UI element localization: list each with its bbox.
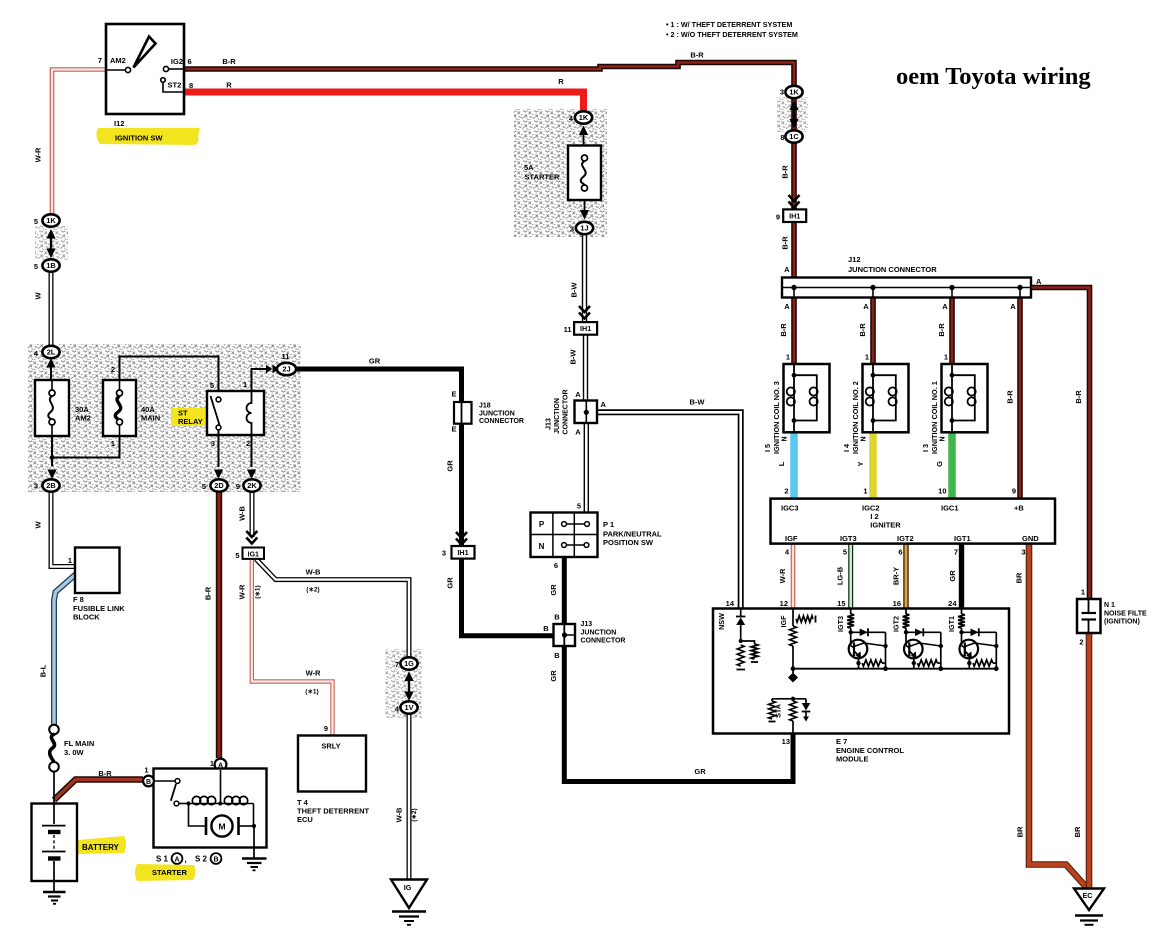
label J13: [581, 621, 593, 628]
label RELAY: [178, 417, 203, 426]
svg-text:FL MAIN: FL MAIN: [64, 739, 94, 748]
pin 1 label: [111, 439, 115, 448]
starter box: [154, 769, 267, 848]
wire B-R junction connector J12 tap 3: [949, 288, 955, 365]
highlight ST RELAY label: [171, 408, 216, 426]
arrows into 2J: [266, 365, 279, 374]
svg-text:ECU: ECU: [297, 815, 313, 824]
ignition switch contact ST2 and wire: [161, 78, 184, 92]
svg-text:N: N: [940, 436, 947, 441]
svg-text:AM2: AM2: [75, 414, 91, 423]
svg-text:1K: 1K: [46, 216, 56, 225]
pin 1 label: [243, 380, 247, 389]
svg-text:N: N: [861, 436, 868, 441]
pin 5 label: [34, 217, 38, 226]
svg-text:IGC1: IGC1: [941, 504, 959, 513]
svg-text:B-R: B-R: [98, 769, 112, 778]
pin 6 label: [554, 561, 558, 570]
label NOISE FILTE: [1104, 611, 1147, 618]
svg-text:1: 1: [865, 353, 869, 362]
svg-text:I 5: I 5: [763, 444, 772, 452]
arrows into IH1: [456, 532, 467, 545]
svg-text:1: 1: [786, 353, 790, 362]
svg-text:24: 24: [948, 599, 957, 608]
arrows into IG1: [246, 531, 257, 544]
label N 1: [1104, 602, 1115, 609]
wire B-W starter fuse 1J to junction IH1: [582, 234, 587, 324]
svg-text:(∗2): (∗2): [306, 587, 319, 594]
svg-text:B-R: B-R: [222, 57, 236, 66]
svg-text:IGT3: IGT3: [840, 534, 857, 543]
label IGC3: [781, 504, 799, 513]
wire G ignition coil no.1 to igniter IGC1: [948, 431, 956, 499]
svg-text:STARTER: STARTER: [525, 173, 560, 182]
svg-text:B-W: B-W: [690, 398, 706, 407]
connector IG1 box: [243, 548, 265, 559]
svg-text:IGNITION COIL NO. 3: IGNITION COIL NO. 3: [772, 381, 781, 454]
shaded area connectors 1G/1V: [385, 649, 422, 718]
svg-text:9: 9: [1012, 487, 1016, 496]
junction 11 IH1: [574, 322, 597, 335]
label IGNITION SW: [115, 134, 163, 143]
svg-text:A: A: [174, 856, 179, 863]
connector 1K starter fuse: [575, 111, 592, 123]
svg-text:B-L: B-L: [39, 664, 48, 677]
svg-text:LG-B: LG-B: [836, 566, 845, 585]
label JUNCTION: [479, 411, 515, 418]
svg-text:B-R: B-R: [690, 51, 704, 60]
ECM IGT3 transistor circuit: [847, 609, 888, 672]
label B-R: [1074, 390, 1083, 404]
svg-text:2L: 2L: [47, 348, 56, 357]
svg-text:B-W: B-W: [569, 349, 578, 365]
svg-text:IGT1: IGT1: [954, 534, 971, 543]
pin 1 label: [1081, 588, 1085, 597]
starter switch: [154, 779, 189, 806]
svg-text:IH1: IH1: [789, 212, 800, 221]
wire GR junction IH1 to junction connector J13: [462, 556, 556, 636]
label A: [1010, 302, 1016, 311]
pin 3 label: [1021, 548, 1025, 557]
wire GR junction connector J13 to ECM pin 13: [564, 644, 793, 782]
label GR: [549, 670, 558, 682]
wire B-W junction connector J13 to park/neutral switch pin 5: [584, 421, 589, 513]
label GR: [694, 767, 706, 776]
connector 1C: [785, 130, 802, 142]
pin 14 label: [726, 599, 735, 608]
svg-text:2K: 2K: [247, 481, 257, 490]
pin 7 label: [98, 56, 102, 65]
svg-text:W-B: W-B: [306, 568, 321, 577]
pin 3 label: [780, 88, 784, 97]
svg-text:6: 6: [898, 548, 902, 557]
label BLOCK: [73, 613, 100, 622]
wire LG-B igniter IGT3 to ECM pin 15: [848, 544, 853, 609]
svg-text:STARTER: STARTER: [152, 868, 187, 877]
title oem Toyota wiring: [896, 63, 1091, 90]
arrow into 2B: [47, 470, 56, 480]
svg-text:8: 8: [780, 133, 784, 142]
svg-text:B: B: [554, 613, 560, 622]
svg-text:B-R: B-R: [781, 236, 790, 250]
label (*2): [411, 808, 418, 821]
pin 1 label: [210, 759, 214, 768]
connector 1K: [42, 214, 59, 226]
label E: [451, 425, 456, 434]
pin 2 label: [111, 365, 115, 374]
pin 5 label: [34, 262, 38, 271]
svg-text:JUNCTION: JUNCTION: [554, 398, 561, 434]
pin 8 label: [780, 133, 784, 142]
ground below battery: [43, 881, 66, 904]
label IGF: [785, 534, 798, 543]
label B: [554, 613, 560, 622]
svg-text:IGF: IGF: [779, 615, 788, 628]
svg-text:GND: GND: [1022, 534, 1039, 543]
label B-R: [204, 586, 213, 600]
svg-text:BLOCK: BLOCK: [73, 613, 100, 622]
wire W connector 2B to fusible link block F8: [51, 490, 75, 567]
label GR: [446, 460, 455, 472]
arrows between 1K and 1B: [46, 229, 55, 258]
svg-text:1C: 1C: [789, 132, 799, 141]
label GND: [1022, 534, 1039, 543]
wire B-R junction connector J12 tap 2: [870, 288, 876, 365]
label JUNCTION CONNECTOR: [848, 265, 937, 274]
ground IG: [391, 880, 427, 925]
connector 1J: [576, 222, 593, 234]
svg-text:L: L: [777, 461, 786, 466]
svg-text:B-R: B-R: [781, 165, 790, 179]
svg-text:1V: 1V: [404, 703, 413, 712]
label W-R: [34, 147, 43, 162]
svg-text:5A: 5A: [524, 163, 534, 172]
svg-text:G: G: [935, 461, 944, 467]
pin 9 label: [324, 724, 328, 733]
ignition switch key symbol: [134, 37, 156, 68]
label B: [554, 651, 560, 660]
pin 8 label: [189, 81, 193, 90]
pin IG2 label: [171, 57, 183, 66]
svg-text:B: B: [213, 856, 218, 863]
svg-text:5: 5: [235, 551, 239, 560]
svg-text:3: 3: [570, 225, 574, 234]
svg-text:W-R: W-R: [778, 568, 787, 583]
arrow into 1K: [579, 126, 588, 147]
label A: [1036, 277, 1042, 286]
label MODULE: [836, 755, 869, 764]
pin 5 label: [202, 482, 206, 491]
wire W-B connector 2K to connector IG1: [250, 490, 255, 537]
arrow into fuse 30A: [46, 358, 55, 381]
wire fuse 40A pin1 to junction: [52, 436, 120, 458]
svg-text:BR: BR: [1016, 826, 1025, 837]
svg-text:Y: Y: [856, 461, 865, 466]
shaded area connectors 1K/1C: [777, 97, 808, 132]
label B: [543, 624, 549, 633]
wire relay pin1 to 2J: [252, 369, 269, 391]
label LG-B: [836, 566, 845, 585]
junction 3 IH1: [452, 546, 475, 559]
junction connector J12: [782, 278, 1031, 298]
ECM E7 box: [713, 609, 1009, 734]
pin 1 label: [144, 766, 148, 775]
wire W-R ignition switch AM2 to connector 1K: [52, 70, 106, 215]
label B-R coil no.3: [779, 323, 788, 337]
svg-text:A: A: [784, 265, 790, 274]
wire B-R connector 2D to starter terminal A: [216, 490, 222, 758]
junction 9 IH1: [783, 209, 806, 222]
label L: [777, 461, 786, 466]
svg-text:A: A: [863, 302, 869, 311]
label B-R: [222, 57, 236, 66]
svg-text:IGT1: IGT1: [947, 616, 956, 632]
svg-text:BR: BR: [1073, 826, 1082, 837]
svg-text:GR: GR: [446, 460, 455, 472]
label IGNITER: [870, 521, 901, 530]
arrows into IH1: [579, 306, 590, 319]
svg-text:I 4: I 4: [842, 443, 851, 452]
ground EC: [1074, 889, 1104, 925]
wire B-R ignition switch IG2 to junction connector J12: [184, 63, 794, 279]
svg-text:IGT2: IGT2: [891, 616, 900, 632]
label W-B: [306, 568, 321, 577]
svg-text:IGF: IGF: [785, 534, 798, 543]
svg-text:JUNCTION: JUNCTION: [581, 630, 617, 637]
svg-text:W-B: W-B: [238, 505, 247, 520]
svg-text:1: 1: [210, 759, 214, 768]
relay switch contacts: [211, 396, 221, 430]
pin 1 label: [863, 487, 867, 496]
svg-text:5: 5: [34, 262, 38, 271]
svg-text:P 1: P 1: [603, 520, 614, 529]
svg-text:E 7: E 7: [836, 737, 847, 746]
label J12: [848, 255, 861, 264]
label IGT2: [891, 616, 900, 632]
svg-text:AM2: AM2: [110, 56, 126, 65]
label IGT1: [947, 616, 956, 632]
arrows between 1G and 1V: [404, 672, 413, 702]
label CONNECTOR vertical: [563, 390, 570, 435]
svg-text:1: 1: [243, 380, 247, 389]
label FL MAIN: [64, 739, 94, 748]
fuse 40A MAIN: [103, 380, 136, 436]
svg-text:J18: J18: [479, 403, 491, 410]
label BATTERY: [82, 843, 120, 852]
label A: [575, 428, 581, 437]
svg-text:B-W: B-W: [570, 282, 579, 298]
svg-text:8: 8: [189, 81, 193, 90]
label R: [558, 77, 564, 86]
svg-text:A: A: [575, 428, 581, 437]
label S1 A S2 B: [156, 853, 221, 864]
wire fuse 30A to 2B junction: [51, 436, 53, 466]
wire relay pin2 to 2K: [251, 435, 253, 467]
label +B: [1014, 504, 1024, 513]
pin 1 label coil no.1: [944, 353, 948, 362]
label STA: [774, 704, 783, 718]
svg-text:IGT2: IGT2: [897, 534, 914, 543]
svg-text:oem Toyota wiring: oem Toyota wiring: [896, 63, 1091, 90]
pin N label coil no.1: [940, 436, 947, 441]
svg-text:IGNITION COIL NO. 2: IGNITION COIL NO. 2: [851, 381, 860, 454]
svg-text:3: 3: [1021, 548, 1025, 557]
wire GR relay 2J to junction connector J18/IH1: [295, 369, 462, 637]
pin 4 label: [569, 114, 574, 123]
svg-text:J13: J13: [581, 621, 593, 628]
label IGF: [779, 615, 788, 628]
connector 2J: [277, 363, 296, 375]
svg-text:7: 7: [395, 660, 399, 669]
label B-R: [781, 236, 790, 250]
label JUNCTION vertical: [554, 398, 561, 434]
ECM IGT2 transistor circuit: [903, 609, 944, 672]
junction connector J13 (B-W): [575, 401, 598, 424]
label E: [451, 390, 456, 399]
svg-text:IG2: IG2: [171, 57, 183, 66]
svg-text:W-R: W-R: [238, 584, 247, 599]
svg-text:16: 16: [893, 599, 901, 608]
svg-text:E: E: [451, 425, 456, 434]
fuse 30A AM2: [35, 380, 69, 436]
svg-text:A: A: [942, 302, 948, 311]
label BR: [1016, 826, 1025, 837]
svg-text:1: 1: [111, 439, 115, 448]
wire B-R junction connector J12 to noise filter N1: [1031, 288, 1090, 601]
pin 3 label: [34, 482, 38, 491]
label BR: [1015, 572, 1024, 583]
label B-R: [690, 51, 704, 60]
wire BR igniter GND to ground EC: [1029, 544, 1087, 888]
ground below starter: [242, 859, 267, 871]
svg-text:IH1: IH1: [457, 548, 468, 557]
wire B-R junction connector J12 tap 4: [1017, 288, 1023, 499]
label 3. 0W: [64, 748, 85, 757]
pin ST2 label: [168, 81, 182, 90]
svg-text:CONNECTOR: CONNECTOR: [563, 390, 570, 435]
svg-text:I12: I12: [114, 119, 124, 128]
arrows into IH1: [789, 195, 800, 208]
label BR: [1073, 826, 1082, 837]
pin 10 label: [938, 487, 946, 496]
ignition switch contact IG2: [163, 66, 184, 71]
svg-text:1K: 1K: [789, 88, 799, 97]
pin 12 label: [780, 599, 788, 608]
pin 4 label: [395, 705, 400, 714]
svg-text:A: A: [784, 302, 790, 311]
svg-text:1: 1: [1081, 588, 1085, 597]
starter terminal B: [143, 776, 154, 787]
label B-R: [98, 769, 112, 778]
noise filter N1: [1077, 599, 1101, 633]
pin 7 label: [954, 548, 958, 557]
svg-text:W-R: W-R: [34, 147, 43, 162]
label Y: [856, 461, 865, 466]
svg-text:5: 5: [843, 548, 847, 557]
svg-text:(∗1): (∗1): [305, 689, 318, 696]
pin 2 label: [246, 439, 250, 448]
label NSW: [717, 613, 726, 630]
svg-text:B: B: [543, 624, 549, 633]
pin 6 label: [898, 548, 902, 557]
starter solenoid coils: [186, 796, 253, 805]
wire GR park/neutral switch pin 6 to junction connector J13: [562, 557, 567, 626]
label G: [935, 461, 944, 467]
pin 5 label: [235, 551, 239, 560]
svg-text:14: 14: [726, 599, 735, 608]
svg-text:GR: GR: [948, 570, 957, 582]
svg-text:2B: 2B: [46, 481, 55, 490]
connector 2K: [243, 479, 260, 491]
label B-W: [570, 282, 579, 298]
label A: [863, 302, 869, 311]
ECM IGF circuit: [788, 609, 816, 683]
battery cell symbol: [42, 804, 66, 882]
label B-R coil no.1: [937, 323, 946, 337]
svg-text:5: 5: [202, 482, 206, 491]
label IGT2: [897, 534, 914, 543]
fusible link FL MAIN: [49, 725, 59, 804]
ignition coil no.1 windings: [945, 364, 976, 432]
connector 2B: [42, 479, 59, 491]
svg-text:A: A: [601, 400, 607, 409]
shaded area fuse/relay block: [28, 344, 301, 492]
label B-R: [1006, 390, 1015, 404]
wire W-R connector IG1 to theft deterrent ECU pin 9: [252, 558, 333, 736]
label STARTER: [525, 173, 560, 182]
svg-text:3: 3: [442, 549, 446, 558]
svg-text:B-R: B-R: [204, 586, 213, 600]
svg-text:3: 3: [211, 439, 215, 448]
label R: [226, 81, 232, 90]
pin 9 label: [776, 213, 780, 222]
connector 1K right: [785, 86, 802, 98]
label A: [784, 302, 790, 311]
ignition coil no.3 box: [784, 364, 830, 432]
svg-text:GR: GR: [369, 357, 381, 366]
note 1 theft deterrent: [666, 20, 792, 29]
arrows between 1K and 1C: [789, 101, 798, 129]
pin 4 label: [785, 548, 790, 557]
junction connector J13 (GR): [554, 624, 576, 646]
pin 3 label: [570, 225, 574, 234]
svg-text:7: 7: [954, 548, 958, 557]
label (*1): [305, 689, 318, 696]
pin 3 label: [442, 549, 446, 558]
arrow into 1J: [580, 200, 589, 220]
svg-text:S 1: S 1: [156, 855, 169, 864]
svg-text:11: 11: [282, 352, 290, 361]
svg-text:1: 1: [68, 556, 72, 565]
relay ST box: [207, 391, 264, 435]
wire W-B connector IG1 to connector 1G: [256, 559, 409, 659]
svg-text:W: W: [34, 521, 43, 529]
label B-L: [39, 664, 48, 677]
label W-R: [238, 584, 247, 599]
svg-text:15: 15: [837, 599, 845, 608]
svg-text:12: 12: [780, 599, 788, 608]
svg-text:J13: J13: [546, 418, 553, 430]
svg-text:N: N: [782, 436, 789, 441]
label IGC1: [941, 504, 959, 513]
wire W-B connector 1V to ground IG: [407, 713, 412, 880]
wire R ignition switch ST2 to 5A STARTER fuse: [184, 92, 584, 111]
battery box: [32, 804, 78, 882]
svg-text:1: 1: [944, 353, 948, 362]
svg-text:3: 3: [34, 482, 38, 491]
pin AM2 label: [110, 56, 126, 65]
label W: [34, 292, 43, 300]
